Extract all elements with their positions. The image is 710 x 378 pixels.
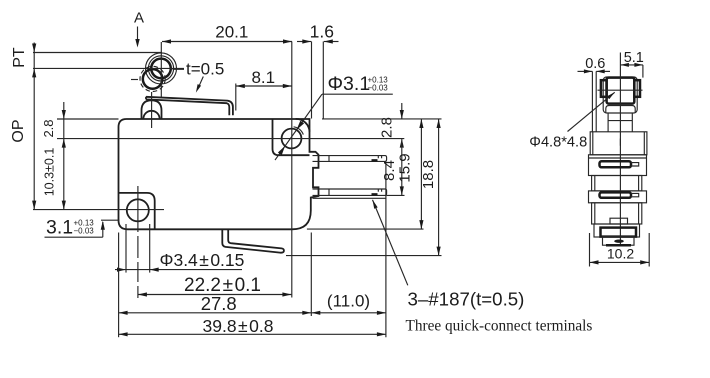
side block I mark (619, 139, 621, 146)
svg-text:39.8 ± 0.8: 39.8 ± 0.8 (203, 316, 274, 336)
bracket inner line (606, 106, 635, 114)
dim A arrow (137, 27, 139, 41)
lever blade (146, 97, 233, 116)
svg-text:0.6: 0.6 (585, 56, 605, 72)
right ref line terminal tip (286, 255, 442, 257)
side block A (592, 176, 642, 191)
pressed centerline dash (131, 79, 138, 81)
side roller h centerline (598, 89, 643, 91)
roller free position (146, 53, 177, 84)
svg-text:Φ4.8*4.8: Φ4.8*4.8 (529, 135, 587, 151)
svg-text:Three quick-connect terminals: Three quick-connect terminals (406, 318, 593, 335)
centerline vertical hole TR (291, 42, 293, 298)
mounting boss bottom-left (119, 193, 155, 229)
hole top-right (282, 129, 302, 149)
side top block (590, 132, 647, 155)
side slot row 2 (589, 191, 647, 203)
common terminal bottom (222, 229, 284, 253)
svg-text:18.8: 18.8 (420, 160, 437, 189)
svg-text:−0.03: −0.03 (368, 84, 389, 93)
pivot centerline (151, 92, 153, 128)
side block B tab (610, 218, 628, 224)
plunger inner dome (143, 111, 159, 119)
switch body outline (119, 119, 319, 229)
plunger dome (142, 100, 162, 119)
centerline vertical hole BL (137, 186, 139, 298)
svg-text:Φ3.4 ± 0.15: Φ3.4 ± 0.15 (160, 250, 245, 270)
svg-text:OP: OP (10, 119, 27, 142)
side stem (608, 113, 632, 132)
hole bottom-left (127, 199, 149, 221)
svg-text:t=0.5: t=0.5 (186, 59, 224, 78)
roller centerline horizontal (146, 67, 184, 69)
svg-text:1.6: 1.6 (310, 21, 334, 41)
svg-text:3–#187(t=0.5): 3–#187(t=0.5) (408, 289, 525, 310)
phi3.1 leader (322, 93, 393, 95)
terminal blade lower (313, 189, 387, 195)
side roller (607, 78, 635, 104)
right ref line blade bottom (387, 194, 405, 196)
side block B (592, 203, 642, 224)
terminal blade upper (313, 156, 387, 162)
side bottom terminal (594, 224, 640, 237)
svg-text:A: A (134, 9, 144, 26)
boss inner arc (294, 127, 304, 135)
side roller flange left (601, 80, 607, 97)
svg-text:Φ3.1: Φ3.1 (328, 73, 371, 95)
svg-text:8.1: 8.1 (251, 68, 275, 87)
roller pressed hub (143, 69, 163, 89)
svg-text:10.3±0.1: 10.3±0.1 (43, 148, 57, 197)
svg-text:2.8: 2.8 (41, 119, 56, 137)
svg-text:10.2: 10.2 (607, 245, 634, 261)
svg-text:3.1: 3.1 (46, 217, 73, 239)
roller pressed position dashed (140, 66, 165, 91)
label 3-#187 leader (373, 200, 408, 285)
side view v centerline (619, 53, 621, 247)
side roller flange right (634, 80, 640, 97)
right ref line body bottom (307, 228, 424, 230)
svg-text:PT: PT (11, 47, 28, 68)
side view bracket (603, 77, 637, 113)
roller centerline vertical (160, 42, 162, 97)
svg-text:15.9: 15.9 (397, 153, 414, 182)
svg-text:27.8: 27.8 (201, 293, 237, 314)
centerline horizontal hole TR (57, 138, 404, 140)
svg-text:20.1: 20.1 (215, 22, 248, 41)
blade lower extra edge (313, 197, 387, 199)
side slot row 1 (589, 155, 647, 176)
svg-text:2.8: 2.8 (379, 117, 396, 138)
centerline horizontal hole BL (33, 209, 164, 211)
mounting boss top-right (273, 119, 310, 155)
svg-text:−0.03: −0.03 (74, 227, 95, 236)
svg-text:8.4: 8.4 (381, 160, 398, 181)
right ref line top (322, 118, 442, 120)
svg-text:(11.0): (11.0) (327, 292, 370, 311)
